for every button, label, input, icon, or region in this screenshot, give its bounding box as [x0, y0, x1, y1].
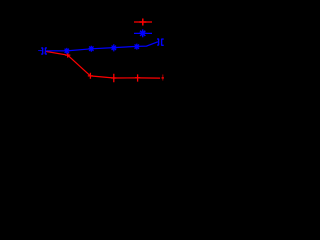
legend blue star marker core: [141, 32, 144, 35]
red point R4: [111, 74, 116, 83]
blue errorbar B1b (right I-beam): [45, 48, 47, 55]
red point R3: [88, 73, 93, 79]
wire blue main line: [46, 42, 158, 51]
blue point P3 (star): [89, 46, 95, 52]
blue point P4 (star): [111, 44, 117, 51]
blue errorbar B6a (left I-beam, line end): [157, 39, 159, 46]
legend red sample line: [134, 21, 152, 23]
blue point P5 (star): [134, 44, 140, 50]
legend blue star marker: [139, 29, 146, 37]
blue point P2 (star): [64, 48, 70, 54]
blue errorbar B6b (right I-beam, line end): [161, 39, 163, 46]
legend red plus marker: [139, 19, 146, 26]
blue series line: [38, 50, 42, 52]
red errorbar R1 (hidden behind blue start): [44, 52, 46, 54]
red series line: [46, 51, 160, 78]
red point R2: [65, 53, 70, 58]
blue errorbar B1a (left I-beam): [41, 48, 43, 55]
red point R6 (faint error bar): [162, 75, 164, 81]
legend blue sample line: [134, 32, 152, 34]
red point R5: [135, 74, 140, 81]
